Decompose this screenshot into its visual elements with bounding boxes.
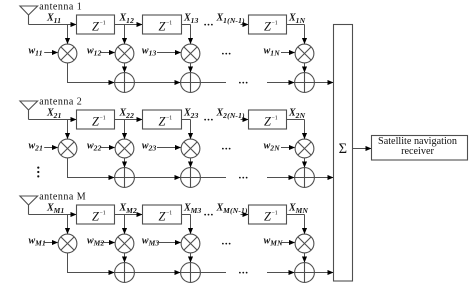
multiplier M1N [295, 44, 314, 63]
delay block D22 (Z^-1) [143, 110, 182, 129]
wire antenna M to first delay [29, 214, 77, 216]
adder AMN [295, 263, 315, 283]
wire last delay to tap 1N [287, 24, 305, 26]
wire multiplier M1N down to adder [304, 63, 306, 72]
delay block DM(N-1) (Z^-1) [249, 205, 287, 224]
svg-text:antenna 1: antenna 1 [39, 2, 82, 13]
wire w11 into multiplier [44, 52, 58, 54]
wire into last delay row 1 [241, 24, 249, 26]
delay block DM2 (Z^-1) [143, 205, 182, 224]
svg-text:...: ... [204, 16, 214, 28]
multiplier M13 [181, 44, 200, 63]
svg-text:receiver: receiver [401, 146, 434, 157]
wire tap X22 down to multiplier [124, 120, 126, 139]
wire delay2 to tap M3 [182, 214, 191, 216]
svg-text:−1: −1 [272, 211, 278, 217]
svg-text:−1: −1 [100, 21, 106, 27]
svg-text:Z: Z [159, 210, 166, 224]
adder A12 [115, 73, 135, 93]
wire into adder AMN [267, 272, 294, 274]
svg-text:...: ... [222, 141, 232, 153]
svg-text:Σ: Σ [339, 141, 347, 157]
wire tap XMN down to multiplier [304, 215, 306, 234]
delay block D1(N-1) (Z^-1) [249, 15, 287, 34]
adder A1N [295, 73, 315, 93]
adder AM2 [115, 263, 135, 283]
svg-text:−1: −1 [100, 116, 106, 122]
wire adder A23 output [200, 177, 226, 179]
wire adder A22 to adder A23 [134, 177, 180, 179]
wire wM3 into multiplier [157, 242, 181, 244]
wire delay1 to delay2 row 2 [115, 119, 143, 121]
adder A23 [181, 168, 201, 188]
wire tap X21 down to multiplier [67, 120, 69, 139]
antenna 1 symbol [20, 6, 38, 25]
multiplier MM1 [58, 234, 77, 253]
adder A2N [295, 168, 315, 188]
svg-text:−1: −1 [166, 211, 172, 217]
svg-text:antenna M: antenna M [39, 192, 86, 203]
wire last delay to tap 2N [287, 119, 305, 121]
wire tap XM2 down to multiplier [124, 215, 126, 234]
delay block D21 (Z^-1) [77, 110, 115, 129]
wire delay2 to tap 13 [182, 24, 191, 26]
wire wMN into multiplier [281, 242, 295, 244]
multiplier M12 [115, 44, 134, 63]
svg-text:Z: Z [264, 20, 271, 34]
wire multiplier M22 down to adder [124, 158, 126, 167]
wire multiplier M11 output to adder chain [68, 63, 115, 83]
wire tap X2N down to multiplier [304, 120, 306, 139]
wire adder A13 output [200, 82, 226, 84]
delay block DM1 (Z^-1) [77, 205, 115, 224]
wire delay2 to tap 23 [182, 119, 191, 121]
wire last delay to tap MN [287, 214, 305, 216]
svg-text:Z: Z [92, 115, 99, 129]
wire wM1 into multiplier [44, 242, 58, 244]
wire multiplier M21 output to adder chain [68, 158, 115, 178]
wire summer to receiver [353, 148, 372, 150]
wire multiplier M13 down to adder [190, 63, 192, 72]
wire multiplier M2N down to adder [304, 158, 306, 167]
svg-text:−1: −1 [166, 116, 172, 122]
svg-text:...: ... [239, 170, 249, 182]
wire delay1 to delay2 row M [115, 214, 143, 216]
svg-text:...: ... [239, 75, 249, 87]
svg-text:...: ... [239, 265, 249, 277]
wire wM2 into multiplier [101, 242, 115, 244]
svg-text:Z: Z [159, 115, 166, 129]
svg-text:...: ... [204, 206, 214, 218]
summer Sigma block [334, 25, 353, 282]
svg-text:Z: Z [92, 20, 99, 34]
wire multiplier MM1 output to adder chain [68, 253, 115, 273]
wire antenna 2 to first delay [29, 119, 77, 121]
multiplier M21 [58, 139, 77, 158]
wire tap X12 down to multiplier [124, 25, 126, 44]
wire w13 into multiplier [157, 52, 181, 54]
svg-text:Z: Z [264, 115, 271, 129]
wire tap X1N down to multiplier [304, 25, 306, 44]
wire into adder A2N [267, 177, 294, 179]
multiplier MM2 [115, 234, 134, 253]
vertical ellipsis between antenna 2 and antenna M rows [37, 167, 39, 178]
multiplier M2N [295, 139, 314, 158]
wire multiplier MM2 down to adder [124, 253, 126, 262]
adder A22 [115, 168, 135, 188]
antenna M symbol [20, 196, 38, 215]
wire multiplier MMN down to adder [304, 253, 306, 262]
wire tap XM3 down to multiplier [190, 215, 192, 234]
svg-text:...: ... [222, 46, 232, 58]
wire w12 into multiplier [101, 52, 115, 54]
multiplier MM3 [181, 234, 200, 253]
wire adder A2N to summer [314, 177, 333, 179]
wire tap X11 down to multiplier [67, 25, 69, 44]
wire into last delay row M [241, 214, 249, 216]
wire adder AM3 output [200, 272, 226, 274]
svg-text:...: ... [204, 111, 214, 123]
wire into adder A1N [267, 82, 294, 84]
multiplier M11 [58, 44, 77, 63]
svg-text:Z: Z [264, 210, 271, 224]
wire w23 into multiplier [157, 147, 181, 149]
wire adder A1N to summer [314, 82, 333, 84]
svg-text:−1: −1 [272, 116, 278, 122]
multiplier M22 [115, 139, 134, 158]
svg-text:−1: −1 [100, 211, 106, 217]
wire adder AM2 to adder AM3 [134, 272, 180, 274]
delay block D12 (Z^-1) [143, 15, 182, 34]
satellite navigation receiver block [372, 136, 468, 161]
wire tap X13 down to multiplier [190, 25, 192, 44]
wire multiplier M12 down to adder [124, 63, 126, 72]
multiplier M23 [181, 139, 200, 158]
adder AM3 [181, 263, 201, 283]
wire w2N into multiplier [281, 147, 295, 149]
wire delay1 to delay2 row 1 [115, 24, 143, 26]
adder A13 [181, 73, 201, 93]
svg-text:antenna 2: antenna 2 [39, 97, 82, 108]
wire into last delay row 2 [241, 119, 249, 121]
wire w22 into multiplier [101, 147, 115, 149]
wire multiplier M23 down to adder [190, 158, 192, 167]
wire w21 into multiplier [44, 147, 58, 149]
svg-text:...: ... [222, 236, 232, 248]
svg-text:−1: −1 [166, 21, 172, 27]
antenna 2 symbol [20, 101, 38, 120]
multiplier MMN [295, 234, 314, 253]
delay block D2(N-1) (Z^-1) [249, 110, 287, 129]
wire adder AMN to summer [314, 272, 333, 274]
svg-text:−1: −1 [272, 21, 278, 27]
wire multiplier MM3 down to adder [190, 253, 192, 262]
wire tap X23 down to multiplier [190, 120, 192, 139]
wire antenna 1 to first delay [29, 24, 77, 26]
wire tap XM1 down to multiplier [67, 215, 69, 234]
delay block D11 (Z^-1) [77, 15, 115, 34]
svg-text:Z: Z [92, 210, 99, 224]
wire w1N into multiplier [281, 52, 295, 54]
svg-text:Z: Z [159, 20, 166, 34]
wire adder A12 to adder A13 [134, 82, 180, 84]
